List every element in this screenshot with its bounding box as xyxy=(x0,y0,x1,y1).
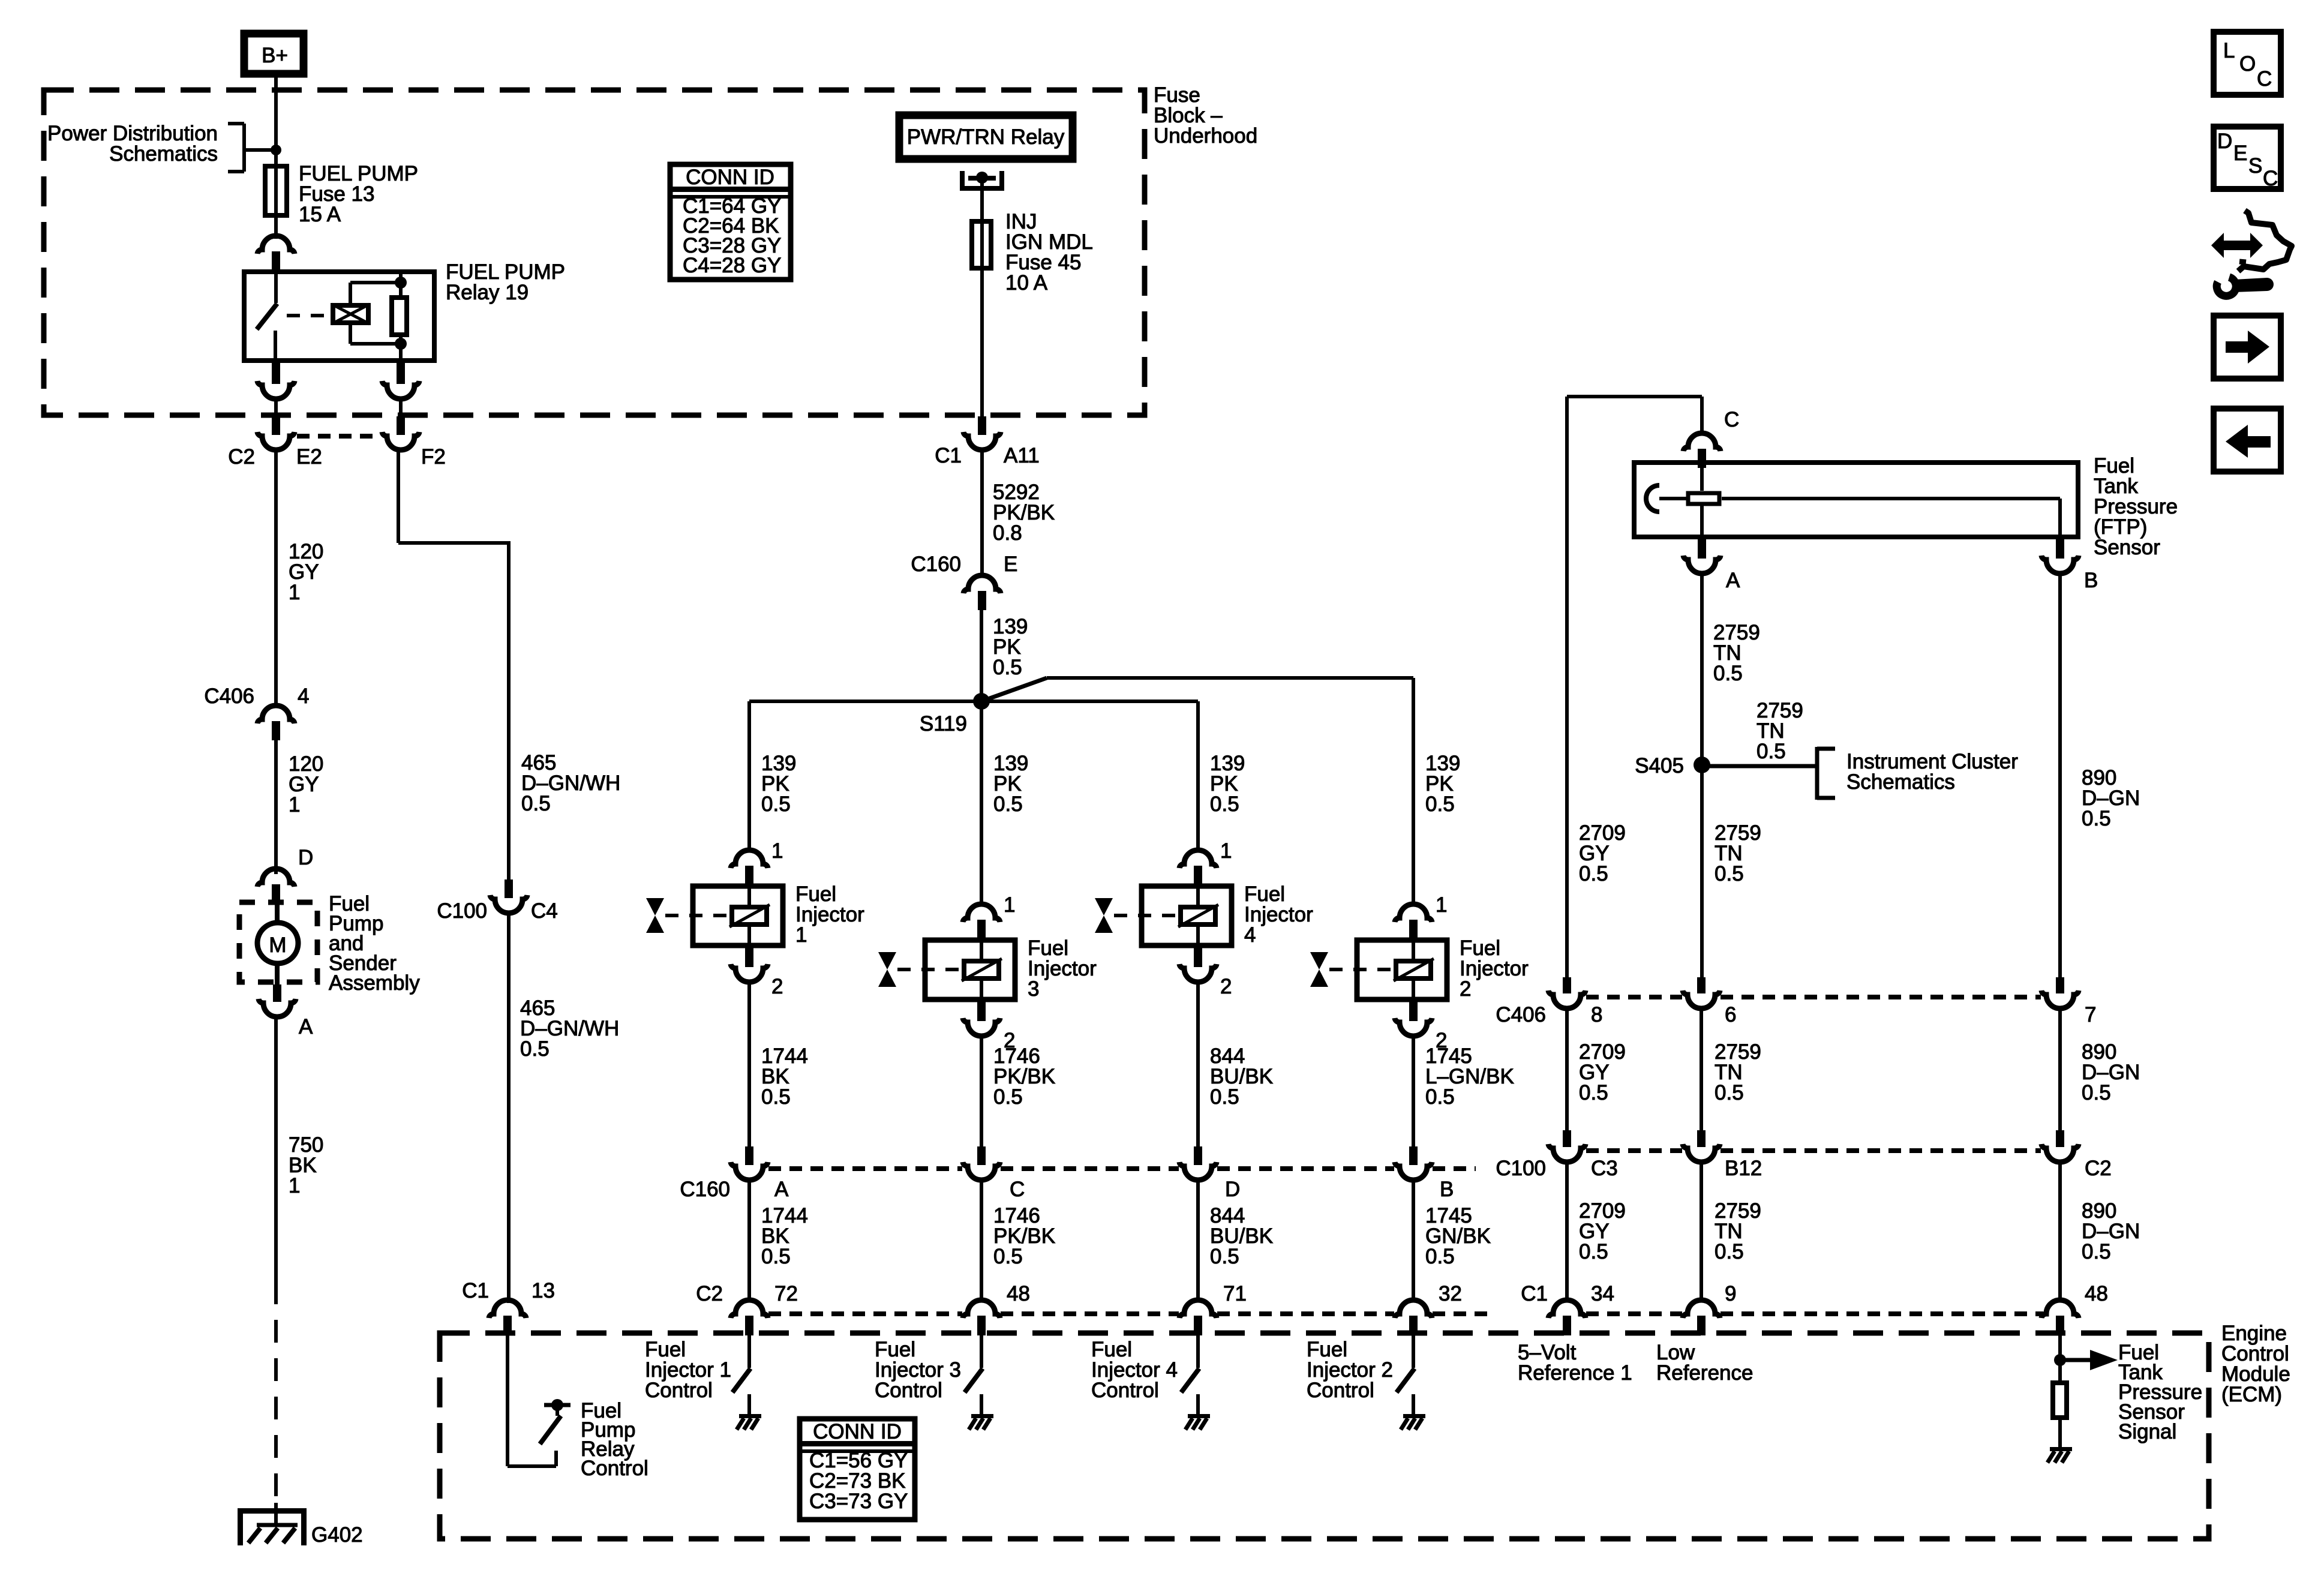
svg-text:M: M xyxy=(269,933,286,957)
connector C160 injector pin row x=2356 xyxy=(1395,1146,1432,1180)
svg-text:0.5: 0.5 xyxy=(1210,792,1239,816)
injector 4 actuation dashed link xyxy=(1114,914,1176,917)
svg-text:Schematics: Schematics xyxy=(1846,770,1955,794)
svg-text:D: D xyxy=(2217,130,2232,153)
connector C160 injector pin row x=1249 xyxy=(731,1146,768,1180)
label C1 pin 48 xyxy=(2085,1282,2108,1305)
svg-text:E: E xyxy=(2233,142,2247,165)
label wire 2709 GY 0.5 (upper) xyxy=(1579,821,1626,885)
svg-text:0.5: 0.5 xyxy=(1579,862,1608,885)
connector C2 pin 71 xyxy=(1179,1300,1217,1335)
label pin C4 xyxy=(531,899,558,923)
svg-text:0.5: 0.5 xyxy=(1756,740,1786,763)
label wire 139 PK 0.5 (injector 3) xyxy=(993,752,1028,816)
svg-text:2: 2 xyxy=(771,975,783,998)
wire relay pin to fuse-block edge right xyxy=(399,399,403,418)
label wire 139 PK 0.5 (injector 4) xyxy=(1210,752,1245,816)
svg-text:0.5: 0.5 xyxy=(520,1037,550,1061)
connector injector 2 pin 2 xyxy=(1395,1002,1432,1036)
label pin 2 injector 1 xyxy=(771,975,783,998)
resistor FTP pull inside ECM xyxy=(2053,1360,2067,1447)
ground FTP signal reference xyxy=(2047,1447,2072,1463)
icon DESC box xyxy=(2214,127,2281,190)
svg-text:32: 32 xyxy=(1439,1282,1462,1305)
svg-text:C100: C100 xyxy=(437,899,487,923)
wire 120 GY segment 1 xyxy=(274,450,278,706)
svg-text:Control: Control xyxy=(581,1457,648,1480)
label Fuel Pump and Sender Assembly xyxy=(329,892,420,995)
label C160 pin C xyxy=(1010,1178,1025,1201)
node splice S405 xyxy=(1694,701,1710,773)
wire relay coil bottom branch xyxy=(350,325,401,344)
relay switch common lead xyxy=(274,269,278,303)
connector fuse13-to-relay (cup and pin) xyxy=(257,236,295,271)
svg-text:Underhood: Underhood xyxy=(1154,124,1257,148)
connector C2 pin F2 xyxy=(382,416,419,450)
wire 750 BK dashed segment xyxy=(274,1281,278,1503)
svg-text:L: L xyxy=(2223,39,2235,62)
wire relay pin to fuse-block edge left xyxy=(274,399,278,418)
label S405 xyxy=(1635,754,1684,778)
wire injector 1 return lower xyxy=(747,1180,751,1301)
label wire 120 GY 1 (upper) xyxy=(289,540,323,604)
label pin 1 injector 4 xyxy=(1220,839,1232,863)
wire FTP signal arrow xyxy=(2060,1350,2118,1370)
label C406 (right) xyxy=(1496,1003,1546,1026)
svg-text:0.5: 0.5 xyxy=(1715,862,1744,885)
label wire 1746 PK/BK 0.5 (lower) xyxy=(993,1204,1055,1268)
svg-text:C: C xyxy=(1010,1178,1025,1201)
label Low Reference xyxy=(1656,1341,1753,1385)
label Fuel Injector 4 Control xyxy=(1091,1338,1178,1402)
svg-text:O: O xyxy=(2239,52,2256,76)
svg-text:0.5: 0.5 xyxy=(993,792,1023,816)
wire resistor to pin 85 xyxy=(399,337,403,363)
connector C160 injector pin row x=1636 xyxy=(963,1146,1000,1180)
injector 2 coil xyxy=(1394,938,1434,1002)
svg-text:72: 72 xyxy=(774,1282,798,1305)
motor M fuel pump xyxy=(257,923,298,963)
label wire 465 D-GN/WH 0.5 (lower) xyxy=(520,996,619,1061)
svg-text:0.5: 0.5 xyxy=(1425,1085,1455,1109)
label Engine Control Module (ECM) xyxy=(2221,1322,2290,1406)
label pin A xyxy=(1726,569,1740,592)
node relay coil-resistor junction upper xyxy=(395,277,407,289)
svg-text:15 A: 15 A xyxy=(299,203,341,226)
connector C2 pin 48 xyxy=(963,1300,1000,1335)
wire pump to pin A xyxy=(275,963,280,986)
label C100 pin C2 xyxy=(2085,1157,2112,1180)
wire injector 2 return lower xyxy=(1412,1180,1415,1301)
svg-text:7: 7 xyxy=(2085,1003,2096,1026)
svg-text:C2: C2 xyxy=(2085,1157,2112,1180)
svg-text:A: A xyxy=(774,1178,789,1201)
ground injector 2 driver xyxy=(1401,1414,1425,1430)
svg-text:0.5: 0.5 xyxy=(1713,662,1743,685)
fuel injector 1 body xyxy=(693,886,783,945)
label C406 pin 8 xyxy=(1591,1003,1602,1026)
svg-text:D: D xyxy=(1225,1178,1240,1201)
label C1 (fuel pump relay control) xyxy=(462,1279,489,1302)
label wire 2759 TN 0.5 (upper) xyxy=(1713,621,1760,685)
svg-text:0.5: 0.5 xyxy=(1579,1081,1608,1104)
svg-text:0.5: 0.5 xyxy=(2082,1081,2111,1104)
box Engine Control Module ECM (dashed) xyxy=(440,1333,2209,1539)
connector injector 3 pin 2 xyxy=(963,1002,1000,1036)
label wire 1745 L–GN/BK 0.5 (upper) xyxy=(1425,1044,1514,1109)
relay actuation dashed link xyxy=(287,314,328,317)
power symbol PWR/TRN Relay xyxy=(899,115,1073,159)
resistor relay internal xyxy=(392,298,407,335)
label C406 pin 7 xyxy=(2085,1003,2096,1026)
connector C2 pin 72 xyxy=(731,1300,768,1335)
wire 2759 TN lower xyxy=(1700,1162,1703,1301)
box Fuse Block - Underhood (dashed) xyxy=(44,90,1145,415)
valve symbol injector 1 xyxy=(646,898,664,933)
connector C406 row x=3434 xyxy=(2041,977,2079,1008)
wire FTP signal into ECM xyxy=(2058,1335,2062,1360)
wire 890 D-GN upper xyxy=(2058,574,2062,978)
connector FTP sensor pin A xyxy=(1683,539,1721,574)
label pin 32 xyxy=(1439,1282,1462,1305)
svg-text:C3=73 GY: C3=73 GY xyxy=(809,1490,908,1513)
svg-text:1: 1 xyxy=(289,581,300,604)
label FUEL PUMP Fuse 13 15 A xyxy=(299,162,418,226)
connector injector 2 pin 1 xyxy=(1395,904,1432,938)
connector injector 4 pin 2 xyxy=(1179,948,1217,982)
transistor fuel-pump-relay-control switch xyxy=(540,1399,571,1444)
relay FUEL PUMP Relay 19 outline xyxy=(244,272,434,361)
label pin 48 xyxy=(1007,1282,1030,1305)
label wire 465 D-GN/WH 0.5 (upper) xyxy=(521,751,620,815)
svg-text:71: 71 xyxy=(1223,1282,1247,1305)
valve symbol injector 3 xyxy=(878,952,896,987)
connector injector 1 pin 2 xyxy=(731,948,768,982)
wire injector 4 return upper xyxy=(1196,982,1200,1148)
FTP sensor internal wiper circuit xyxy=(1646,460,2060,539)
label Power Distribution Schematics xyxy=(47,122,218,166)
label wire 2709 GY 0.5 (mid) xyxy=(1579,1040,1626,1104)
label wire 2709 GY 0.5 (lower) xyxy=(1579,1199,1626,1263)
svg-text:Relay 19: Relay 19 xyxy=(446,281,529,304)
svg-text:C406: C406 xyxy=(204,685,254,708)
label Fuel Injector 2 xyxy=(1460,936,1529,1001)
label FUEL PUMP Relay 19 xyxy=(446,260,565,304)
wire dashed C100 row right xyxy=(1586,1148,2041,1153)
wire fuel pump relay control lead xyxy=(508,1335,556,1466)
label pin 1 injector 3 xyxy=(1004,893,1015,917)
wire 139 PK trunk xyxy=(980,610,983,701)
connector C2 pin 32 xyxy=(1395,1300,1432,1335)
label pin 1 injector 1 xyxy=(771,839,783,863)
label pin 71 xyxy=(1223,1282,1247,1305)
connector C1 pin 13 xyxy=(489,1300,526,1335)
svg-text:8: 8 xyxy=(1591,1003,1602,1026)
connector C100 row x=3434 xyxy=(2041,1130,2079,1162)
connector C406 row x=2612 xyxy=(1548,977,1586,1008)
label wire 750 BK 1 xyxy=(289,1133,323,1197)
connector injector 1 pin 1 xyxy=(731,850,768,884)
wire S119 branch to injector 1 xyxy=(749,700,981,703)
fuse INJ IGN MDL Fuse 45 10A xyxy=(972,219,991,271)
connector FTP sensor pin B xyxy=(2041,539,2079,574)
label C1 (ECM right) xyxy=(1521,1282,1548,1305)
wire fuse 13 to relay pin xyxy=(274,218,278,239)
wire 2709 GY lower xyxy=(1565,1162,1569,1301)
label Fuel Tank Pressure Sensor Signal xyxy=(2118,1341,2202,1443)
svg-text:C: C xyxy=(2263,167,2278,190)
fuel injector 4 body xyxy=(1142,886,1232,945)
svg-text:0.5: 0.5 xyxy=(761,1085,791,1109)
svg-text:S119: S119 xyxy=(920,712,967,736)
svg-text:C2: C2 xyxy=(228,445,255,469)
wire 465 D-GN/WH lower segment xyxy=(507,913,511,1303)
svg-text:1: 1 xyxy=(771,839,783,863)
wire S405 to instrument cluster xyxy=(1702,764,1817,769)
connector C2 pin E2 xyxy=(257,416,295,450)
wire S119 branch to injector 2 xyxy=(981,678,1413,701)
svg-text:13: 13 xyxy=(532,1279,555,1302)
label INJ IGN MDL Fuse 45 10 A xyxy=(1005,210,1093,295)
svg-text:E: E xyxy=(1004,553,1017,576)
valve symbol injector 2 xyxy=(1310,952,1328,987)
label Fuel Pump Relay Control xyxy=(581,1399,648,1480)
label wire 890 D-GN 0.5 (mid) xyxy=(2082,1040,2140,1104)
svg-text:0.5: 0.5 xyxy=(1210,1245,1239,1268)
box Fuel Tank Pressure sensor xyxy=(1634,463,2078,537)
svg-text:S: S xyxy=(2248,154,2262,178)
label C406 xyxy=(204,685,254,708)
svg-text:0.5: 0.5 xyxy=(1425,792,1455,816)
label pin C xyxy=(1724,408,1739,431)
svg-text:C100: C100 xyxy=(1496,1157,1546,1180)
table CONN ID (underhood) xyxy=(670,164,791,280)
svg-text:0.5: 0.5 xyxy=(761,1245,791,1268)
wire 5-volt reference feed xyxy=(1567,397,1702,978)
node FTP signal junction xyxy=(2054,1354,2066,1366)
svg-text:A: A xyxy=(299,1015,313,1038)
wire 750 BK solid segment xyxy=(274,1017,278,1281)
label wire 139 PK 0.5 (trunk) xyxy=(993,615,1028,679)
label C100 (right) xyxy=(1496,1157,1546,1180)
svg-text:0.5: 0.5 xyxy=(2082,807,2111,830)
wire injector 4 return lower xyxy=(1196,1180,1200,1301)
connector FTP sensor pin C xyxy=(1683,433,1721,468)
label Fuel Injector 1 xyxy=(795,882,864,947)
svg-text:2: 2 xyxy=(1460,977,1471,1001)
svg-text:10 A: 10 A xyxy=(1005,271,1048,295)
svg-text:C1: C1 xyxy=(935,444,962,467)
box Fuel Pump and Sender Assembly (dashed) xyxy=(239,902,317,982)
label wire 120 GY 1 (lower) xyxy=(289,752,323,816)
wire injector 3 return lower xyxy=(980,1180,983,1301)
label Instrument Cluster Schematics xyxy=(1846,750,2018,794)
connector C160 injector pin row x=1997 xyxy=(1179,1146,1217,1180)
connector relay output pin at x=668 xyxy=(382,363,419,399)
svg-text:0.5: 0.5 xyxy=(761,792,791,816)
svg-text:PWR/TRN Relay: PWR/TRN Relay xyxy=(907,125,1065,149)
wire pump pin D lead xyxy=(275,902,280,924)
svg-text:C4: C4 xyxy=(531,899,558,923)
label Fuel Injector 2 Control xyxy=(1307,1338,1393,1402)
svg-text:2: 2 xyxy=(1220,975,1232,998)
label S119 xyxy=(920,712,967,736)
wire 120 GY segment 2 xyxy=(274,740,278,874)
label pin E xyxy=(1004,553,1017,576)
svg-text:F2: F2 xyxy=(421,445,446,469)
label pin 1 injector 2 xyxy=(1436,893,1447,917)
wire 2759 TN to C406 xyxy=(1700,765,1704,978)
label wire 139 PK 0.5 (injector 2) xyxy=(1425,752,1460,816)
label pin 13 xyxy=(532,1279,555,1302)
valve symbol injector 4 xyxy=(1095,898,1113,933)
injector 3 coil xyxy=(962,938,1002,1002)
label C1 pin 34 xyxy=(1591,1282,1614,1305)
wire 890 D-GN mid xyxy=(2058,1008,2062,1131)
wire 2759 TN mid xyxy=(1700,1008,1703,1131)
svg-text:Sensor: Sensor xyxy=(2094,536,2160,559)
wire 465 D-GN/WH upper segment xyxy=(398,450,509,881)
label C160 (E) xyxy=(911,553,961,576)
svg-text:B+: B+ xyxy=(262,44,288,67)
connector relay output pin at x=460 xyxy=(257,363,295,399)
connector injector 4 pin 1 xyxy=(1179,850,1217,884)
fuel injector 3 body xyxy=(925,940,1015,999)
label C1 pin 9 xyxy=(1725,1282,1736,1305)
label pin A xyxy=(299,1015,313,1038)
label Fuse Block - Underhood xyxy=(1154,83,1257,148)
label C2 (ECM) xyxy=(696,1282,723,1305)
svg-text:C406: C406 xyxy=(1496,1003,1546,1026)
svg-text:Assembly: Assembly xyxy=(329,971,420,995)
svg-text:0.5: 0.5 xyxy=(1715,1240,1744,1263)
injector 3 actuation dashed link xyxy=(897,968,959,971)
label C160 pin B xyxy=(1440,1178,1454,1201)
label wire 844 BU/BK 0.5 (lower) xyxy=(1210,1204,1273,1268)
node Power Distribution Schematics tap xyxy=(228,124,281,172)
wire 2709 GY mid xyxy=(1565,1008,1569,1131)
svg-text:C160: C160 xyxy=(680,1178,730,1201)
svg-text:A: A xyxy=(1726,569,1740,592)
transistor fuel injector 1 control switch xyxy=(732,1335,750,1414)
wire 139 PK feed injector 1 xyxy=(747,701,751,850)
label wire 844 BU/BK 0.5 (upper) xyxy=(1210,1044,1273,1109)
svg-text:3: 3 xyxy=(1028,977,1039,1001)
connector C1 pin A11 xyxy=(963,416,1001,450)
svg-text:(ECM): (ECM) xyxy=(2221,1383,2282,1406)
ground injector 3 driver xyxy=(969,1414,993,1430)
svg-text:Control: Control xyxy=(875,1379,942,1402)
icon LOC box xyxy=(2214,32,2281,95)
label wire 2759 TN 0.5 (lower) xyxy=(1715,1040,1761,1104)
svg-text:0.8: 0.8 xyxy=(993,521,1022,545)
wire S119 branch to injector 4 xyxy=(981,700,1198,703)
ground G402 xyxy=(238,1503,307,1545)
ground injector 1 driver xyxy=(737,1414,761,1430)
label C2 xyxy=(228,445,255,469)
relay switch blade xyxy=(257,304,277,329)
svg-text:0.5: 0.5 xyxy=(1579,1240,1608,1263)
wire injector 1 return upper xyxy=(747,982,751,1148)
connector C1 row x=2836 xyxy=(1683,1300,1720,1335)
label C100 xyxy=(437,899,487,923)
wire fuse 45 to ECM-feed connector xyxy=(980,271,984,418)
power symbol B+ (battery positive) xyxy=(244,34,304,74)
label C100 pin B12 xyxy=(1725,1157,1762,1180)
connector C100 pin C4 xyxy=(490,879,527,913)
svg-text:C160: C160 xyxy=(911,553,961,576)
svg-text:CONN ID: CONN ID xyxy=(813,1420,902,1443)
icon back arrow box xyxy=(2214,409,2281,472)
node Instrument Cluster Schematics tap xyxy=(1817,747,1835,800)
svg-text:0.5: 0.5 xyxy=(1210,1085,1239,1109)
wire relay coil top branch xyxy=(350,283,401,303)
label wire 1746 PK/BK 0.5 (upper) xyxy=(993,1044,1055,1109)
label Fuel Injector 3 Control xyxy=(875,1338,961,1402)
relay switch output lead xyxy=(274,331,277,363)
svg-text:0.5: 0.5 xyxy=(1715,1081,1744,1104)
label C160 pin D xyxy=(1225,1178,1240,1201)
wire 139 PK feed injector 2 xyxy=(1412,678,1415,904)
svg-text:C2: C2 xyxy=(696,1282,723,1305)
label Fuel Injector 4 xyxy=(1244,882,1313,947)
svg-text:CONN ID: CONN ID xyxy=(686,166,774,189)
svg-text:Schematics: Schematics xyxy=(109,142,218,166)
svg-text:1: 1 xyxy=(795,923,807,947)
wire dashed C406 row right xyxy=(1586,995,2041,999)
label C160 pin A xyxy=(774,1178,789,1201)
connector C100 row x=2612 xyxy=(1548,1130,1586,1162)
label Fuel Tank Pressure (FTP) Sensor xyxy=(2094,454,2178,559)
wire relay pin 86 lead xyxy=(399,269,403,295)
wire 2759 TN upper xyxy=(1700,574,1704,701)
label pin E2 xyxy=(296,445,322,469)
connector fuel pump pin D xyxy=(257,869,295,903)
svg-text:0.5: 0.5 xyxy=(993,1245,1023,1268)
connector C1 row x=2612 xyxy=(1548,1300,1586,1335)
node splice S119 xyxy=(973,693,990,710)
svg-text:0.5: 0.5 xyxy=(521,792,551,815)
wire dashed C2/C1 ECM row xyxy=(768,1311,2043,1316)
svg-text:48: 48 xyxy=(2085,1282,2108,1305)
label Fuel Injector 1 Control xyxy=(645,1338,731,1402)
wire dashed link connector C2 row xyxy=(297,434,380,439)
svg-text:6: 6 xyxy=(1725,1003,1736,1026)
svg-text:C1: C1 xyxy=(1521,1282,1548,1305)
label Fuel Injector 3 xyxy=(1028,936,1097,1001)
fuse FUEL PUMP Fuse 13 15A xyxy=(265,164,287,218)
svg-text:C3: C3 xyxy=(1591,1157,1618,1180)
svg-text:E2: E2 xyxy=(296,445,322,469)
label G402 xyxy=(311,1523,363,1547)
wire 890 D-GN lower xyxy=(2058,1162,2062,1301)
wire 139 PK feed injector 3 xyxy=(980,701,983,904)
label C406 pin 6 xyxy=(1725,1003,1736,1026)
svg-text:G402: G402 xyxy=(311,1523,363,1547)
wire B+ to fuse block xyxy=(274,77,278,164)
label wire 1745 GN/BK 0.5 (lower) xyxy=(1425,1204,1491,1268)
svg-text:Control: Control xyxy=(1307,1379,1374,1402)
label wire 1744 BK 0.5 (lower) xyxy=(761,1204,808,1268)
svg-text:0.5: 0.5 xyxy=(2082,1240,2111,1263)
label C160 (row) xyxy=(680,1178,730,1201)
svg-text:Control: Control xyxy=(645,1379,713,1402)
injector 1 actuation dashed link xyxy=(665,914,727,917)
wire injector 2 return upper xyxy=(1412,1036,1415,1148)
node relay coil-resistor junction lower xyxy=(395,338,407,350)
label pin A11 xyxy=(1004,444,1040,467)
svg-text:A11: A11 xyxy=(1004,444,1040,467)
